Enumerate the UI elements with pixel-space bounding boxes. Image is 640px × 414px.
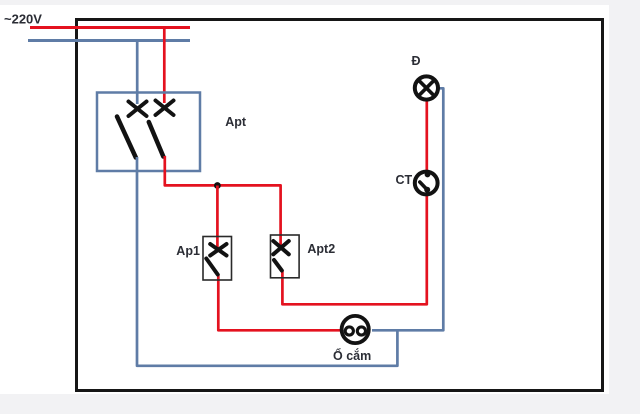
- svg-text:Đ: Đ: [412, 54, 421, 68]
- svg-text:Apt2: Apt2: [307, 242, 335, 256]
- svg-text:Ap1: Ap1: [176, 244, 200, 258]
- svg-text:CT: CT: [396, 173, 413, 187]
- svg-text:Apt: Apt: [225, 115, 247, 129]
- svg-text:Ổ cắm: Ổ cắm: [333, 348, 371, 363]
- svg-text:~220V: ~220V: [4, 11, 42, 26]
